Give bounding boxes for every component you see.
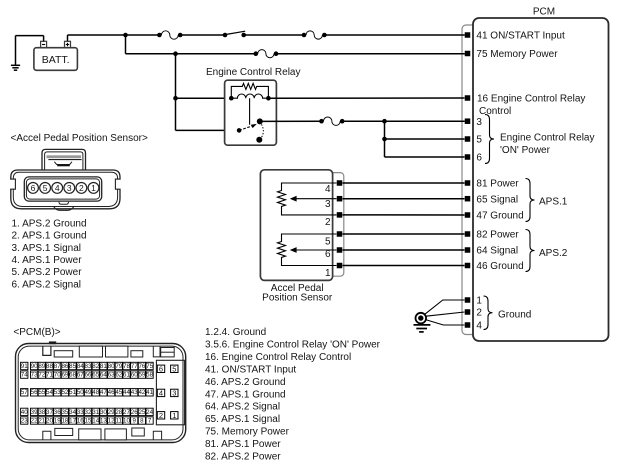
junction node J1 [123, 33, 128, 38]
svg-text:4. APS.1 Power: 4. APS.1 Power [12, 255, 83, 266]
svg-text:83: 83 [85, 363, 92, 370]
PCM pin 6 [465, 154, 471, 160]
wire branch down from J4 [384, 121, 386, 157]
relay NC contact [256, 137, 262, 143]
svg-text:60: 60 [131, 372, 138, 379]
svg-text:72: 72 [38, 372, 45, 379]
svg-text:1: 1 [172, 411, 176, 420]
svg-text:71: 71 [46, 372, 53, 379]
svg-text:49: 49 [85, 389, 92, 396]
wire W2 to fuse F3 [126, 53, 256, 55]
svg-text:46. APS.2 Ground: 46. APS.2 Ground [205, 377, 286, 388]
svg-text:80: 80 [108, 363, 115, 370]
svg-text:Engine Control Relay: Engine Control Relay [206, 67, 301, 78]
svg-text:6: 6 [31, 183, 36, 193]
PCM pin 82 [465, 231, 471, 237]
PCM pin 5 [465, 136, 471, 142]
svg-text:65. APS.1 Signal: 65. APS.1 Signal [205, 414, 280, 425]
svg-text:63: 63 [108, 372, 115, 379]
PCM pin 46 [465, 263, 471, 269]
sensor connector face drawing [10, 149, 122, 210]
wire switch to fuse F2 [244, 34, 304, 36]
svg-text:65: 65 [92, 372, 99, 379]
svg-text:42: 42 [138, 389, 145, 396]
PCM(B) large terminals 1-6 [157, 364, 178, 420]
svg-text:25: 25 [138, 409, 145, 416]
svg-text:41. ON/START Input: 41. ON/START Input [205, 364, 296, 375]
sensor pin 2 [337, 212, 343, 218]
svg-text:'ON' Power: 'ON' Power [500, 145, 551, 156]
wire battery minus to ground [16, 35, 44, 37]
svg-text:9: 9 [132, 417, 136, 424]
wire J5 to PCM pin 5 [385, 138, 465, 140]
PCM pin 65 [465, 196, 471, 202]
svg-text:43: 43 [131, 389, 138, 396]
relay coil terminal right [266, 96, 271, 101]
svg-text:3: 3 [325, 199, 331, 210]
svg-text:75. Memory Power: 75. Memory Power [205, 427, 290, 438]
svg-text:22: 22 [31, 417, 38, 424]
svg-text:3. APS.1 Signal: 3. APS.1 Signal [12, 243, 82, 254]
svg-text:81 Power: 81 Power [476, 179, 519, 190]
svg-text:41 ON/START Input: 41 ON/START Input [476, 31, 565, 42]
PCM pin 75 [465, 51, 471, 57]
svg-text:36: 36 [54, 409, 61, 416]
sensor face cavity 5 [40, 183, 51, 194]
svg-text:BATT.: BATT. [42, 54, 70, 66]
brace APS.1 group [526, 179, 535, 222]
svg-text:85: 85 [69, 363, 76, 370]
potentiometer APS.2 [278, 234, 337, 266]
svg-text:68: 68 [69, 372, 76, 379]
svg-text:4: 4 [159, 388, 163, 397]
svg-text:62: 62 [115, 372, 122, 379]
svg-text:46 Ground: 46 Ground [476, 261, 523, 272]
PCM pin 16 [465, 95, 471, 101]
svg-text:82: 82 [92, 363, 99, 370]
svg-text:5: 5 [476, 135, 482, 146]
svg-text:38: 38 [38, 409, 45, 416]
svg-text:81: 81 [100, 363, 107, 370]
svg-text:19: 19 [54, 417, 61, 424]
brace pins 3-5-6 [485, 115, 494, 164]
svg-text:47 Ground: 47 Ground [476, 211, 523, 222]
chassis ground G1 [414, 313, 431, 332]
svg-text:21: 21 [38, 417, 45, 424]
svg-text:82 Power: 82 Power [476, 230, 519, 241]
PCM connector strip [462, 25, 478, 335]
svg-text:73: 73 [31, 372, 38, 379]
wire sensor pin3 to PCM 65 [343, 198, 465, 200]
wire sensor pin5 to PCM 82 [343, 233, 465, 235]
svg-text:11: 11 [116, 417, 123, 424]
svg-text:44: 44 [123, 389, 130, 396]
svg-text:16: 16 [77, 417, 84, 424]
svg-text:84: 84 [77, 363, 84, 370]
svg-text:28: 28 [115, 409, 122, 416]
relay K1 box [225, 80, 277, 145]
svg-text:24: 24 [146, 409, 153, 416]
svg-text:47: 47 [100, 389, 107, 396]
svg-text:65 Signal: 65 Signal [476, 194, 518, 205]
wire branch down from J2 to relay [175, 54, 177, 131]
svg-text:3: 3 [172, 388, 176, 397]
svg-text:16 Engine Control Relay: 16 Engine Control Relay [477, 93, 585, 104]
wire sensor pin2 to PCM 47 [343, 214, 465, 216]
svg-text:17: 17 [69, 417, 76, 424]
svg-text:4: 4 [55, 183, 60, 193]
svg-text:2: 2 [79, 183, 84, 193]
svg-text:91: 91 [21, 363, 28, 370]
potentiometer APS.1 [278, 183, 337, 215]
ground (battery) [11, 36, 20, 71]
svg-text:5. APS.2 Power: 5. APS.2 Power [12, 267, 83, 278]
svg-text:66: 66 [85, 372, 92, 379]
svg-text:1. APS.2 Ground: 1. APS.2 Ground [12, 219, 87, 230]
sensor face cavity 3 [64, 183, 75, 194]
wire ground to PCM pin 1 [425, 300, 465, 314]
wire sensor pin6 to PCM 64 [343, 249, 465, 251]
svg-text:45: 45 [115, 389, 122, 396]
PCM(B) terminal grid [21, 362, 154, 424]
relay K1 resistor [231, 83, 268, 98]
svg-text:1: 1 [325, 268, 331, 279]
svg-text:87: 87 [54, 363, 61, 370]
svg-text:29: 29 [108, 409, 115, 416]
junction node J4 [382, 119, 387, 124]
svg-text:6: 6 [159, 364, 163, 373]
relay coil terminal left [229, 96, 234, 101]
svg-text:5: 5 [172, 364, 176, 373]
fuse F3 on memory power line [254, 50, 279, 58]
relay NO contact (to PCM) [257, 118, 263, 124]
svg-text:3: 3 [476, 117, 482, 128]
svg-text:27: 27 [123, 409, 130, 416]
relay common contact [237, 128, 242, 133]
svg-text:<Accel Pedal Position Sensor>: <Accel Pedal Position Sensor> [11, 133, 148, 144]
svg-text:32: 32 [85, 409, 92, 416]
svg-text:75: 75 [146, 363, 153, 370]
svg-text:54: 54 [46, 389, 53, 396]
PCM(B) connector shell [16, 342, 186, 443]
svg-text:20: 20 [46, 417, 53, 424]
svg-text:2. APS.1 Ground: 2. APS.1 Ground [12, 231, 87, 242]
svg-text:7: 7 [148, 417, 152, 424]
svg-text:18: 18 [61, 417, 68, 424]
wire W1 battery+ to fuse F1 [68, 34, 160, 36]
relay contact travel arc [261, 124, 263, 137]
wire ground to PCM pin 2 [426, 312, 465, 316]
svg-text:41: 41 [146, 389, 153, 396]
wire fuse F3 to PCM pin 75 [276, 53, 465, 55]
battery BATT. [34, 41, 78, 70]
svg-text:51: 51 [69, 389, 76, 396]
svg-text:61: 61 [123, 372, 130, 379]
PCM pin 1 [465, 297, 471, 303]
svg-text:26: 26 [131, 409, 138, 416]
svg-text:31: 31 [92, 409, 99, 416]
ignition switch SW1 [223, 31, 246, 37]
sensor pin 1 [337, 263, 343, 269]
PCM pin 47 [465, 212, 471, 218]
svg-text:Position Sensor: Position Sensor [262, 293, 333, 304]
wire sensor pin4 to PCM 81 [343, 182, 465, 184]
sensor connector strip [329, 173, 344, 277]
svg-text:2: 2 [325, 217, 331, 228]
svg-text:58: 58 [146, 372, 153, 379]
junction node J3 [173, 96, 178, 101]
svg-text:90: 90 [31, 363, 38, 370]
sensor face cavity 1 [88, 183, 99, 194]
sensor face cavity 6 [28, 183, 39, 194]
wire fuse F2 to PCM pin 41 [324, 34, 464, 36]
wire ground to PCM pin 4 [425, 320, 464, 326]
svg-text:4: 4 [325, 184, 331, 195]
PCM(B) bottom tabs [43, 428, 162, 440]
svg-text:48: 48 [92, 389, 99, 396]
svg-text:APS.2: APS.2 [539, 248, 568, 259]
brace ground pins 1-2-4 [484, 296, 493, 330]
PCM box U1 [473, 18, 609, 341]
svg-text:13: 13 [100, 417, 107, 424]
PCM pin 41 [465, 32, 471, 38]
svg-text:1: 1 [91, 183, 96, 193]
svg-text:5: 5 [43, 183, 48, 193]
wire fuse F1 to ignition switch [180, 34, 225, 36]
wire to PCM pin 6 [385, 156, 465, 158]
svg-text:12: 12 [108, 417, 115, 424]
relay K1 actuator link [249, 98, 251, 125]
svg-text:33: 33 [77, 409, 84, 416]
svg-text:89: 89 [38, 363, 45, 370]
junction node J5 [382, 137, 387, 142]
sensor face cavity 4 [52, 183, 63, 194]
svg-text:67: 67 [77, 372, 84, 379]
svg-text:75 Memory Power: 75 Memory Power [476, 49, 558, 60]
svg-text:34: 34 [69, 409, 76, 416]
brace APS.2 group [526, 230, 535, 272]
PCM pin 3 [465, 118, 471, 124]
svg-text:69: 69 [61, 372, 68, 379]
wire sensor pin1 to PCM 46 [343, 265, 465, 267]
svg-text:53: 53 [54, 389, 61, 396]
svg-text:Engine Control Relay: Engine Control Relay [500, 132, 595, 143]
svg-text:74: 74 [21, 372, 28, 379]
svg-text:59: 59 [138, 372, 145, 379]
svg-text:15: 15 [85, 417, 92, 424]
svg-text:Ground: Ground [498, 309, 531, 320]
svg-text:10: 10 [123, 417, 130, 424]
sensor pin 3 [337, 196, 343, 202]
svg-text:5: 5 [325, 237, 331, 248]
svg-text:39: 39 [31, 409, 38, 416]
sensor pin 6 [337, 247, 343, 253]
PCM(B) top tabs [43, 346, 174, 357]
svg-text:64. APS.2 Signal: 64. APS.2 Signal [205, 402, 280, 413]
sensor face cavity 2 [76, 183, 87, 194]
sensor pin 4 [337, 180, 343, 186]
svg-text:2: 2 [476, 308, 482, 319]
PCM pin 81 [465, 180, 471, 186]
relay K1 coil [231, 94, 268, 98]
fuse F1 on ON/START line [157, 31, 182, 39]
svg-text:<PCM(B)>: <PCM(B)> [13, 327, 60, 338]
svg-text:81. APS.1 Power: 81. APS.1 Power [205, 439, 281, 450]
svg-text:PCM: PCM [533, 7, 555, 18]
svg-text:37: 37 [46, 409, 53, 416]
svg-text:6. APS.2 Signal: 6. APS.2 Signal [12, 279, 82, 290]
svg-text:16. Engine Control Relay Contr: 16. Engine Control Relay Control [205, 352, 351, 363]
svg-text:79: 79 [115, 363, 122, 370]
svg-text:88: 88 [46, 363, 53, 370]
svg-text:40: 40 [21, 409, 28, 416]
sensor pin 5 [337, 231, 343, 237]
svg-text:1: 1 [476, 296, 482, 307]
svg-text:52: 52 [61, 389, 68, 396]
wire to relay common contact [176, 129, 240, 131]
svg-text:76: 76 [138, 363, 145, 370]
wire down to minus terminal [43, 36, 45, 42]
svg-text:47. APS.1 Ground: 47. APS.1 Ground [205, 389, 286, 400]
svg-text:Control: Control [479, 106, 511, 117]
svg-text:86: 86 [61, 363, 68, 370]
wire relay coil to PCM pin 16 [268, 97, 464, 99]
svg-text:64: 64 [100, 372, 107, 379]
svg-text:57: 57 [21, 389, 28, 396]
svg-text:64 Signal: 64 Signal [476, 246, 518, 257]
svg-text:3.5.6. Engine Control Relay 'O: 3.5.6. Engine Control Relay 'ON' Power [205, 339, 381, 350]
svg-text:82. APS.2 Power: 82. APS.2 Power [205, 452, 281, 463]
svg-text:6: 6 [476, 153, 482, 164]
PCM(B) right section divider [156, 360, 184, 425]
PCM pin 4 [465, 322, 471, 328]
svg-text:23: 23 [21, 417, 28, 424]
wire branch down from J1 [125, 35, 127, 54]
svg-text:50: 50 [77, 389, 84, 396]
svg-text:1.2.4. Ground: 1.2.4. Ground [205, 327, 266, 338]
svg-text:55: 55 [38, 389, 45, 396]
svg-text:4: 4 [476, 321, 482, 332]
svg-text:3: 3 [67, 183, 72, 193]
svg-text:6: 6 [325, 249, 331, 260]
accel pedal position sensor box [260, 170, 332, 281]
svg-text:8: 8 [140, 417, 144, 424]
svg-text:46: 46 [108, 389, 115, 396]
wire fuse F4 to PCM pin 3 [342, 120, 465, 122]
svg-text:2: 2 [159, 411, 163, 420]
relay K1 armature [239, 124, 257, 130]
wire up from plus terminal [67, 35, 69, 41]
wire J3 to relay coil [176, 97, 232, 99]
svg-text:APS.1: APS.1 [539, 197, 568, 208]
svg-text:30: 30 [100, 409, 107, 416]
svg-text:78: 78 [123, 363, 130, 370]
svg-text:70: 70 [54, 372, 61, 379]
svg-text:77: 77 [131, 363, 138, 370]
svg-text:14: 14 [92, 417, 99, 424]
svg-text:35: 35 [61, 409, 68, 416]
svg-text:56: 56 [31, 389, 38, 396]
PCM pin 64 [465, 247, 471, 253]
fuse F4 on relay ON power line [319, 117, 344, 125]
junction node J2 [173, 51, 178, 56]
PCM pin 2 [465, 309, 471, 315]
fuse F2 on ON/START line [302, 31, 327, 39]
wire relay output to fuse F4 [260, 120, 322, 122]
